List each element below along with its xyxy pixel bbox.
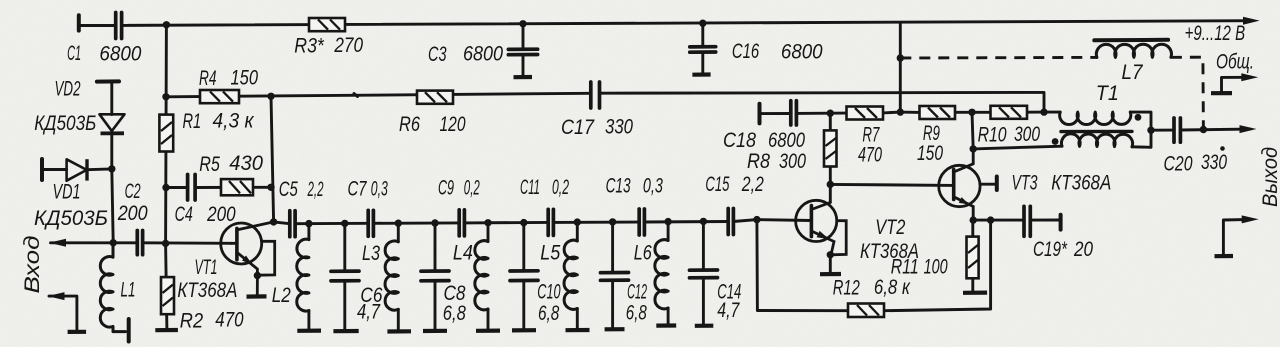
svg-text:R1: R1 xyxy=(183,110,202,133)
svg-text:6800: 6800 xyxy=(99,42,141,65)
wire filter to VT2 base and down to R12 xyxy=(757,220,848,311)
svg-text:6,8: 6,8 xyxy=(443,302,466,325)
capacitor C18 xyxy=(791,101,797,125)
capacitor C9 xyxy=(459,210,464,236)
resistor R7 xyxy=(847,107,884,120)
capacitor C2 xyxy=(137,231,142,255)
wire VD2 branch xyxy=(110,82,113,169)
stray tick mark on rail xyxy=(354,94,358,97)
ground C8 xyxy=(423,329,447,333)
wire vertical x166 from top rail to input line xyxy=(164,25,168,244)
capacitor plates xyxy=(116,13,1181,281)
capacitor C6 xyxy=(331,271,359,281)
resistor R12 xyxy=(848,304,884,318)
stray dot after 330 xyxy=(1220,146,1225,151)
inductor L7 xyxy=(1096,44,1171,57)
capacitor C20 xyxy=(1174,118,1180,142)
svg-text:L7: L7 xyxy=(1122,61,1144,84)
wire L4 branch xyxy=(487,223,490,329)
ground obshch xyxy=(1211,91,1232,95)
wire C6 branch xyxy=(343,223,346,329)
arrow +9..12V right end of top rail xyxy=(1243,17,1260,25)
svg-text:VT3: VT3 xyxy=(1012,171,1038,194)
wire C18 row xyxy=(760,112,1045,114)
resistor R5 xyxy=(221,179,253,195)
ground L2 xyxy=(297,329,321,333)
ground L3 xyxy=(387,329,411,333)
svg-text:6800: 6800 xyxy=(463,42,503,65)
svg-text:С19*: С19* xyxy=(1033,238,1068,261)
svg-text:R8: R8 xyxy=(747,150,770,173)
wire VD1 row xyxy=(42,169,113,243)
terminal bar C19 right xyxy=(1059,215,1063,230)
svg-text:R4: R4 xyxy=(199,67,217,90)
capacitor C17 xyxy=(591,82,600,108)
svg-text:L2: L2 xyxy=(272,284,291,307)
terminal bar VT3 case lead xyxy=(995,177,999,191)
svg-text:С15: С15 xyxy=(705,173,729,196)
wire R12 right to VT3 emitter xyxy=(884,220,991,311)
wire input line xyxy=(51,241,232,244)
wire R5 row xyxy=(166,186,271,189)
capacitor C8 xyxy=(421,271,449,281)
svg-text:0,3: 0,3 xyxy=(371,178,388,201)
T1 phase dot bottom xyxy=(1052,138,1059,145)
transistor VT1 xyxy=(221,222,275,295)
svg-text:VT2: VT2 xyxy=(875,216,905,239)
svg-text:С16: С16 xyxy=(732,40,760,63)
svg-text:С4: С4 xyxy=(175,203,193,226)
wire R2 branch to ground xyxy=(166,243,167,329)
capacitor C15 xyxy=(728,209,733,235)
diode VD2 xyxy=(100,114,125,131)
wire L2 branch xyxy=(307,224,310,329)
capacitor C12 xyxy=(601,273,629,281)
wire filter rail xyxy=(274,220,757,224)
ground C6 xyxy=(333,329,358,333)
capacitor C3 xyxy=(508,49,537,55)
ground C3 xyxy=(514,75,533,79)
svg-text:200: 200 xyxy=(206,203,236,226)
capacitor C19 xyxy=(1024,206,1030,236)
svg-text:С2: С2 xyxy=(125,180,141,203)
svg-text:470: 470 xyxy=(858,144,882,167)
L7 core bar xyxy=(1094,38,1168,43)
wire L5 branch xyxy=(576,222,579,328)
T1 core bar xyxy=(1061,130,1132,134)
svg-text:L3: L3 xyxy=(362,242,380,265)
svg-text:Т1: Т1 xyxy=(1096,82,1119,105)
svg-text:150: 150 xyxy=(231,67,259,90)
ground C16 xyxy=(692,72,710,76)
wire C3 branch xyxy=(522,24,525,75)
svg-text:300: 300 xyxy=(779,150,806,173)
wire R11 vertical xyxy=(971,220,974,290)
resistor R3 xyxy=(309,18,345,31)
dashed L7 feed line xyxy=(900,57,1203,129)
ground L5 xyxy=(566,328,590,332)
diodes xyxy=(67,114,125,180)
svg-text:430: 430 xyxy=(229,152,263,175)
terminal bar VD1 left xyxy=(40,159,44,180)
svg-text:4,7: 4,7 xyxy=(357,301,381,324)
resistor R10 xyxy=(991,106,1028,119)
svg-text:С12: С12 xyxy=(627,280,647,303)
wire T1 right side xyxy=(1130,112,1151,147)
arrow input ground xyxy=(48,292,65,300)
transistor VT2 xyxy=(796,200,847,255)
svg-text:330: 330 xyxy=(605,115,633,138)
wire C14 branch xyxy=(702,221,705,324)
resistor R1 xyxy=(159,115,173,152)
svg-text:R2: R2 xyxy=(180,310,204,333)
capacitor C5 xyxy=(290,211,295,237)
resistor R4 xyxy=(200,90,239,103)
svg-text:КД503Б: КД503Б xyxy=(34,112,96,135)
svg-text:С11: С11 xyxy=(520,176,540,199)
terminal bar VD2 top xyxy=(97,79,119,83)
wire VT2 emitter ground xyxy=(829,255,832,273)
ground output xyxy=(1215,254,1234,258)
svg-text:С17: С17 xyxy=(561,116,595,139)
svg-text:6,8: 6,8 xyxy=(538,302,560,325)
ground VT2 emitter xyxy=(820,272,841,276)
svg-text:0,2: 0,2 xyxy=(552,176,569,199)
capacitor C7 xyxy=(368,210,373,236)
svg-text:R3*: R3* xyxy=(294,34,324,57)
svg-text:С1: С1 xyxy=(67,42,81,65)
svg-text:L4: L4 xyxy=(453,242,473,265)
wire C12 branch xyxy=(611,222,614,328)
wire vertical x271 xyxy=(271,96,274,222)
wire L6 branch xyxy=(667,222,670,324)
svg-text:L6: L6 xyxy=(634,241,652,264)
svg-text:VD1: VD1 xyxy=(53,180,81,203)
svg-text:С7: С7 xyxy=(348,178,368,201)
inductor L3 xyxy=(385,241,398,310)
wire input ground elbow xyxy=(49,296,77,329)
svg-text:VT1: VT1 xyxy=(195,256,218,279)
svg-text:КД503Б: КД503Б xyxy=(34,207,108,230)
svg-text:Вход: Вход xyxy=(21,236,44,294)
ground input xyxy=(68,330,87,334)
capacitor C4 xyxy=(188,175,196,201)
terminal bar C18 left xyxy=(758,104,762,124)
svg-text:С9: С9 xyxy=(438,177,454,200)
svg-text:6,8 к: 6,8 к xyxy=(874,276,911,299)
svg-text:С5: С5 xyxy=(279,178,298,201)
wire L3 branch xyxy=(397,223,400,329)
arrows xyxy=(48,17,1260,300)
wire C10 branch xyxy=(522,223,525,329)
wire T1 bottom winding row xyxy=(973,146,1062,149)
inductor L4 xyxy=(475,241,488,310)
ground VT1 emitter xyxy=(247,294,267,298)
wire C20 row xyxy=(1151,129,1250,130)
ground L4 xyxy=(476,329,500,333)
svg-text:120: 120 xyxy=(440,113,466,136)
terminal bar L1 bottom xyxy=(127,319,131,342)
svg-text:R10: R10 xyxy=(978,123,1007,146)
terminal bar C1 left xyxy=(77,15,81,30)
arrow input xyxy=(49,239,66,247)
terminal bars xyxy=(42,15,1061,341)
svg-text:С3: С3 xyxy=(428,43,447,66)
svg-text:КТ368А: КТ368А xyxy=(177,279,237,302)
inductor L5 xyxy=(564,240,577,309)
ground R2 xyxy=(155,328,178,332)
svg-text:VD2: VD2 xyxy=(55,78,81,101)
svg-text:6,8: 6,8 xyxy=(626,301,647,324)
capacitor C11 xyxy=(548,209,553,235)
svg-text:Общ.: Общ. xyxy=(1216,51,1254,74)
wire top rail T junction xyxy=(1044,111,1060,114)
ground C10 xyxy=(512,328,536,332)
svg-text:С13: С13 xyxy=(606,175,631,198)
wire R8 vertical xyxy=(829,113,832,202)
svg-text:+9...12 В: +9...12 В xyxy=(1185,22,1246,45)
svg-text:R6: R6 xyxy=(399,113,420,136)
svg-text:330: 330 xyxy=(1201,151,1227,174)
resistor R6 xyxy=(417,91,453,104)
arrow obshch terminal xyxy=(1241,73,1258,81)
transistor VT3 xyxy=(939,164,995,207)
wire C16 branch xyxy=(701,23,704,73)
capacitor C10 xyxy=(510,271,538,281)
diode VD1 xyxy=(67,159,87,180)
T1 phase dot top xyxy=(1135,114,1142,121)
wire VT3 collector vertical xyxy=(972,112,973,164)
svg-text:L5: L5 xyxy=(540,241,560,264)
svg-text:0,2: 0,2 xyxy=(464,177,480,200)
transformer T1 bottom winding xyxy=(1061,134,1132,147)
resistor R9 xyxy=(920,106,956,119)
ground R11 xyxy=(963,291,987,295)
svg-text:С10: С10 xyxy=(537,281,560,304)
inductor L1 xyxy=(100,243,125,332)
ground bars xyxy=(68,75,1233,332)
svg-text:2,2: 2,2 xyxy=(741,173,764,196)
capacitor C13 xyxy=(639,209,644,235)
svg-text:270: 270 xyxy=(334,34,364,57)
svg-text:150: 150 xyxy=(917,142,943,165)
resistor boxes xyxy=(159,18,1027,317)
wire VT2 collector to VT3 base xyxy=(830,184,953,185)
resistor R2 xyxy=(161,277,174,314)
wire top rail xyxy=(79,21,1252,26)
svg-text:КТ368А: КТ368А xyxy=(1051,171,1111,194)
ground L6 xyxy=(656,323,676,327)
wire vertical x900 from top rail to R7 row xyxy=(899,23,902,113)
capacitor C1 xyxy=(116,13,122,39)
inductor L6 xyxy=(655,240,668,309)
wire C8 branch xyxy=(434,223,437,329)
svg-text:6800: 6800 xyxy=(768,129,805,152)
svg-text:2,2: 2,2 xyxy=(307,178,324,201)
capacitor C16 xyxy=(690,47,716,53)
resistor R11 xyxy=(967,237,979,279)
inductor L2 xyxy=(297,239,309,311)
svg-text:L1: L1 xyxy=(121,279,136,302)
svg-text:R5: R5 xyxy=(199,153,220,176)
svg-text:4,3 к: 4,3 к xyxy=(213,109,255,132)
svg-text:С18: С18 xyxy=(723,129,756,152)
svg-text:20: 20 xyxy=(1073,238,1093,261)
transformer T1 top winding xyxy=(1060,112,1131,124)
svg-text:0,3: 0,3 xyxy=(643,175,663,198)
ground C12 xyxy=(605,327,625,331)
capacitor C14 xyxy=(690,270,718,278)
arrow output ground xyxy=(1242,215,1259,223)
svg-text:200: 200 xyxy=(117,202,148,225)
wire obshch terminal elbow xyxy=(1222,77,1251,93)
svg-text:470: 470 xyxy=(215,309,243,332)
svg-text:100: 100 xyxy=(924,256,948,279)
svg-text:6800: 6800 xyxy=(781,41,823,64)
svg-text:300: 300 xyxy=(1014,123,1040,146)
wire VT3 emitter row to C19 xyxy=(973,207,1060,221)
svg-text:Выход: Выход xyxy=(1259,147,1280,207)
svg-text:4,7: 4,7 xyxy=(717,299,740,322)
svg-text:R12: R12 xyxy=(833,277,860,300)
wire second rail R4..R10 xyxy=(166,92,1044,112)
ground C14 xyxy=(695,324,714,328)
arrow output xyxy=(1240,125,1257,133)
wire output ground elbow xyxy=(1223,219,1250,254)
svg-text:С20: С20 xyxy=(1164,152,1193,175)
resistor R8 xyxy=(824,130,837,166)
